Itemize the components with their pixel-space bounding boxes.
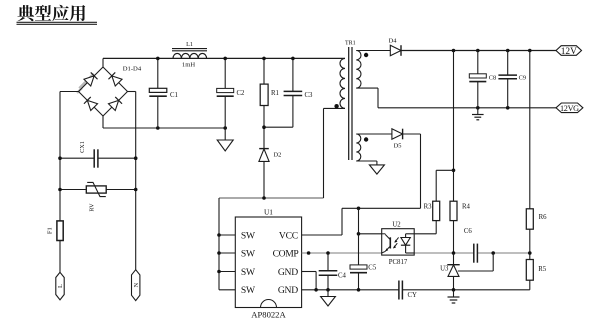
shunt regulator U3 <box>440 253 460 290</box>
svg-text:C2: C2 <box>237 90 246 97</box>
node: C1 bottom <box>156 126 160 130</box>
inductor L1 1mH <box>172 41 207 69</box>
op-amp U1 AP8022A (controller IC) <box>235 207 301 319</box>
wire <box>323 109 325 198</box>
svg-text:R4: R4 <box>462 204 471 211</box>
svg-text:SW: SW <box>241 231 256 242</box>
node: COMP stub <box>307 251 311 255</box>
svg-text:R1: R1 <box>271 90 279 97</box>
svg-text:C3: C3 <box>305 92 314 99</box>
svg-text:C8: C8 <box>489 74 496 81</box>
wire (secondary GND rail) <box>402 289 529 291</box>
svg-text:C5: C5 <box>368 264 377 271</box>
node: CX1 junctions <box>58 156 62 160</box>
wire (drain net) <box>219 197 324 199</box>
svg-text:TR1: TR1 <box>345 40 356 46</box>
wire <box>356 50 390 52</box>
svg-text:C4: C4 <box>338 273 347 280</box>
resistor R3 <box>414 170 453 234</box>
wire <box>103 127 225 129</box>
resistor R5 <box>526 253 546 290</box>
svg-text:C9: C9 <box>519 74 526 81</box>
svg-text:D1-D4: D1-D4 <box>123 66 142 73</box>
diode D5 <box>392 129 421 150</box>
wire (12VG rail) <box>378 107 556 109</box>
capacitor CY <box>399 281 417 300</box>
node: R3/R4 junction <box>452 169 456 173</box>
node: 12V rail taps <box>452 49 456 53</box>
diode D4 <box>389 38 401 56</box>
node: VCC/C5 <box>357 207 361 211</box>
svg-text:N: N <box>133 282 140 287</box>
svg-text:GND: GND <box>278 267 298 278</box>
capacitor C5 (electrolytic) <box>350 264 377 290</box>
svg-text:12VG: 12VG <box>560 104 579 113</box>
svg-text:R6: R6 <box>539 214 548 221</box>
wire <box>102 58 104 67</box>
node: D2 anode <box>262 196 266 200</box>
node: GND rail taps <box>314 288 318 292</box>
transformer TR1 <box>340 40 361 161</box>
svg-text:VCC: VCC <box>279 231 298 242</box>
capacitor C1 (electrolytic) <box>149 58 178 128</box>
svg-text:D5: D5 <box>394 143 402 150</box>
wire (COMP/feedback rail) <box>302 252 530 254</box>
wire <box>377 88 379 108</box>
fuse F1 <box>47 221 64 241</box>
wire (R3/R4 feed) <box>453 51 455 202</box>
wire (U3 ref) <box>458 253 493 271</box>
node: snubber bottom <box>262 125 266 129</box>
node: C3 top <box>291 57 295 61</box>
varistor RV <box>60 182 136 211</box>
optocoupler U2 PC817 <box>359 222 415 266</box>
wire <box>128 91 136 93</box>
svg-text:1mH: 1mH <box>182 62 195 69</box>
node: secondary1 phase dot <box>364 53 368 57</box>
svg-text:R3: R3 <box>424 204 433 211</box>
wire <box>135 92 137 270</box>
node: RV junctions <box>58 188 62 192</box>
node: U3 cathode <box>452 251 456 255</box>
capacitor C8 (electrolytic) <box>469 51 496 108</box>
wire (primary GND rail) <box>302 289 399 291</box>
svg-text:F1: F1 <box>47 227 54 234</box>
resistor R4 <box>450 201 471 253</box>
node: secondary2 phase dot <box>364 137 368 141</box>
node: C2 top <box>223 57 227 61</box>
wire <box>356 133 392 135</box>
svg-text:D4: D4 <box>389 38 398 45</box>
svg-text:CY: CY <box>408 292 418 299</box>
ground (controller) <box>321 290 336 306</box>
wire <box>324 107 346 109</box>
node: C8 bottom <box>476 106 480 110</box>
svg-text:GND: GND <box>278 285 298 296</box>
svg-text:L1: L1 <box>186 41 193 48</box>
wire (12V rail) <box>401 50 556 52</box>
wire <box>103 57 345 59</box>
node: primary phase dot <box>334 104 338 108</box>
node: C4 top <box>326 251 330 255</box>
svg-text:COMP: COMP <box>273 249 299 260</box>
svg-text:CX1: CX1 <box>79 141 86 153</box>
svg-text:U1: U1 <box>264 207 273 216</box>
resistor R1 <box>260 58 279 148</box>
terminal 12V <box>556 46 582 57</box>
svg-text:C1: C1 <box>170 92 178 99</box>
capacitor C4 <box>319 253 347 290</box>
wire (SW bus) <box>219 198 235 290</box>
wire <box>60 91 79 93</box>
terminal N <box>132 270 140 301</box>
svg-text:U2: U2 <box>392 222 401 229</box>
node: C2 bottom <box>223 126 227 130</box>
svg-text:SW: SW <box>241 267 256 278</box>
node: R1 top <box>262 57 266 61</box>
capacitor C2 (electrolytic) <box>217 58 245 128</box>
terminal 12VG <box>556 103 583 113</box>
node: C1 top <box>156 57 160 61</box>
svg-text:L: L <box>57 284 64 288</box>
svg-text:SW: SW <box>241 285 256 296</box>
ground (secondary earth) <box>472 108 484 120</box>
svg-text:R5: R5 <box>538 266 547 273</box>
svg-text:PC817: PC817 <box>389 259 408 266</box>
wire <box>376 161 378 165</box>
svg-text:U3: U3 <box>440 265 449 272</box>
ground (aux winding) <box>369 165 384 174</box>
bridge rectifier D1-D4 <box>77 67 128 116</box>
wire <box>358 208 360 265</box>
capacitor CX1 <box>60 141 136 168</box>
ground (primary bulk) <box>217 128 233 151</box>
node: SW pins <box>217 233 221 237</box>
node: C6 right <box>491 251 495 255</box>
wire (GND pins) <box>302 272 317 290</box>
wire (VCC net) <box>302 134 421 235</box>
svg-text:12V: 12V <box>561 47 577 57</box>
diode D2 <box>259 149 281 198</box>
wire <box>356 160 377 162</box>
terminal L <box>56 272 64 300</box>
svg-text:C6: C6 <box>464 228 473 235</box>
node: C9 bottom <box>506 106 510 110</box>
capacitor C3 <box>264 58 313 127</box>
node: U2 collector <box>357 232 361 236</box>
wire <box>102 116 104 128</box>
wire <box>59 92 61 273</box>
node: R6/R5 divider <box>528 251 532 255</box>
capacitor C9 <box>498 51 526 108</box>
title 典型应用 with underline <box>17 5 98 25</box>
resistor R6 <box>526 51 547 254</box>
svg-text:RV: RV <box>89 203 96 212</box>
svg-text:AP8022A: AP8022A <box>251 310 286 320</box>
svg-text:D2: D2 <box>274 151 282 158</box>
ground (U3 earth) <box>448 290 460 303</box>
capacitor C6 <box>464 228 478 263</box>
wire <box>356 87 378 89</box>
svg-text:SW: SW <box>241 249 256 260</box>
